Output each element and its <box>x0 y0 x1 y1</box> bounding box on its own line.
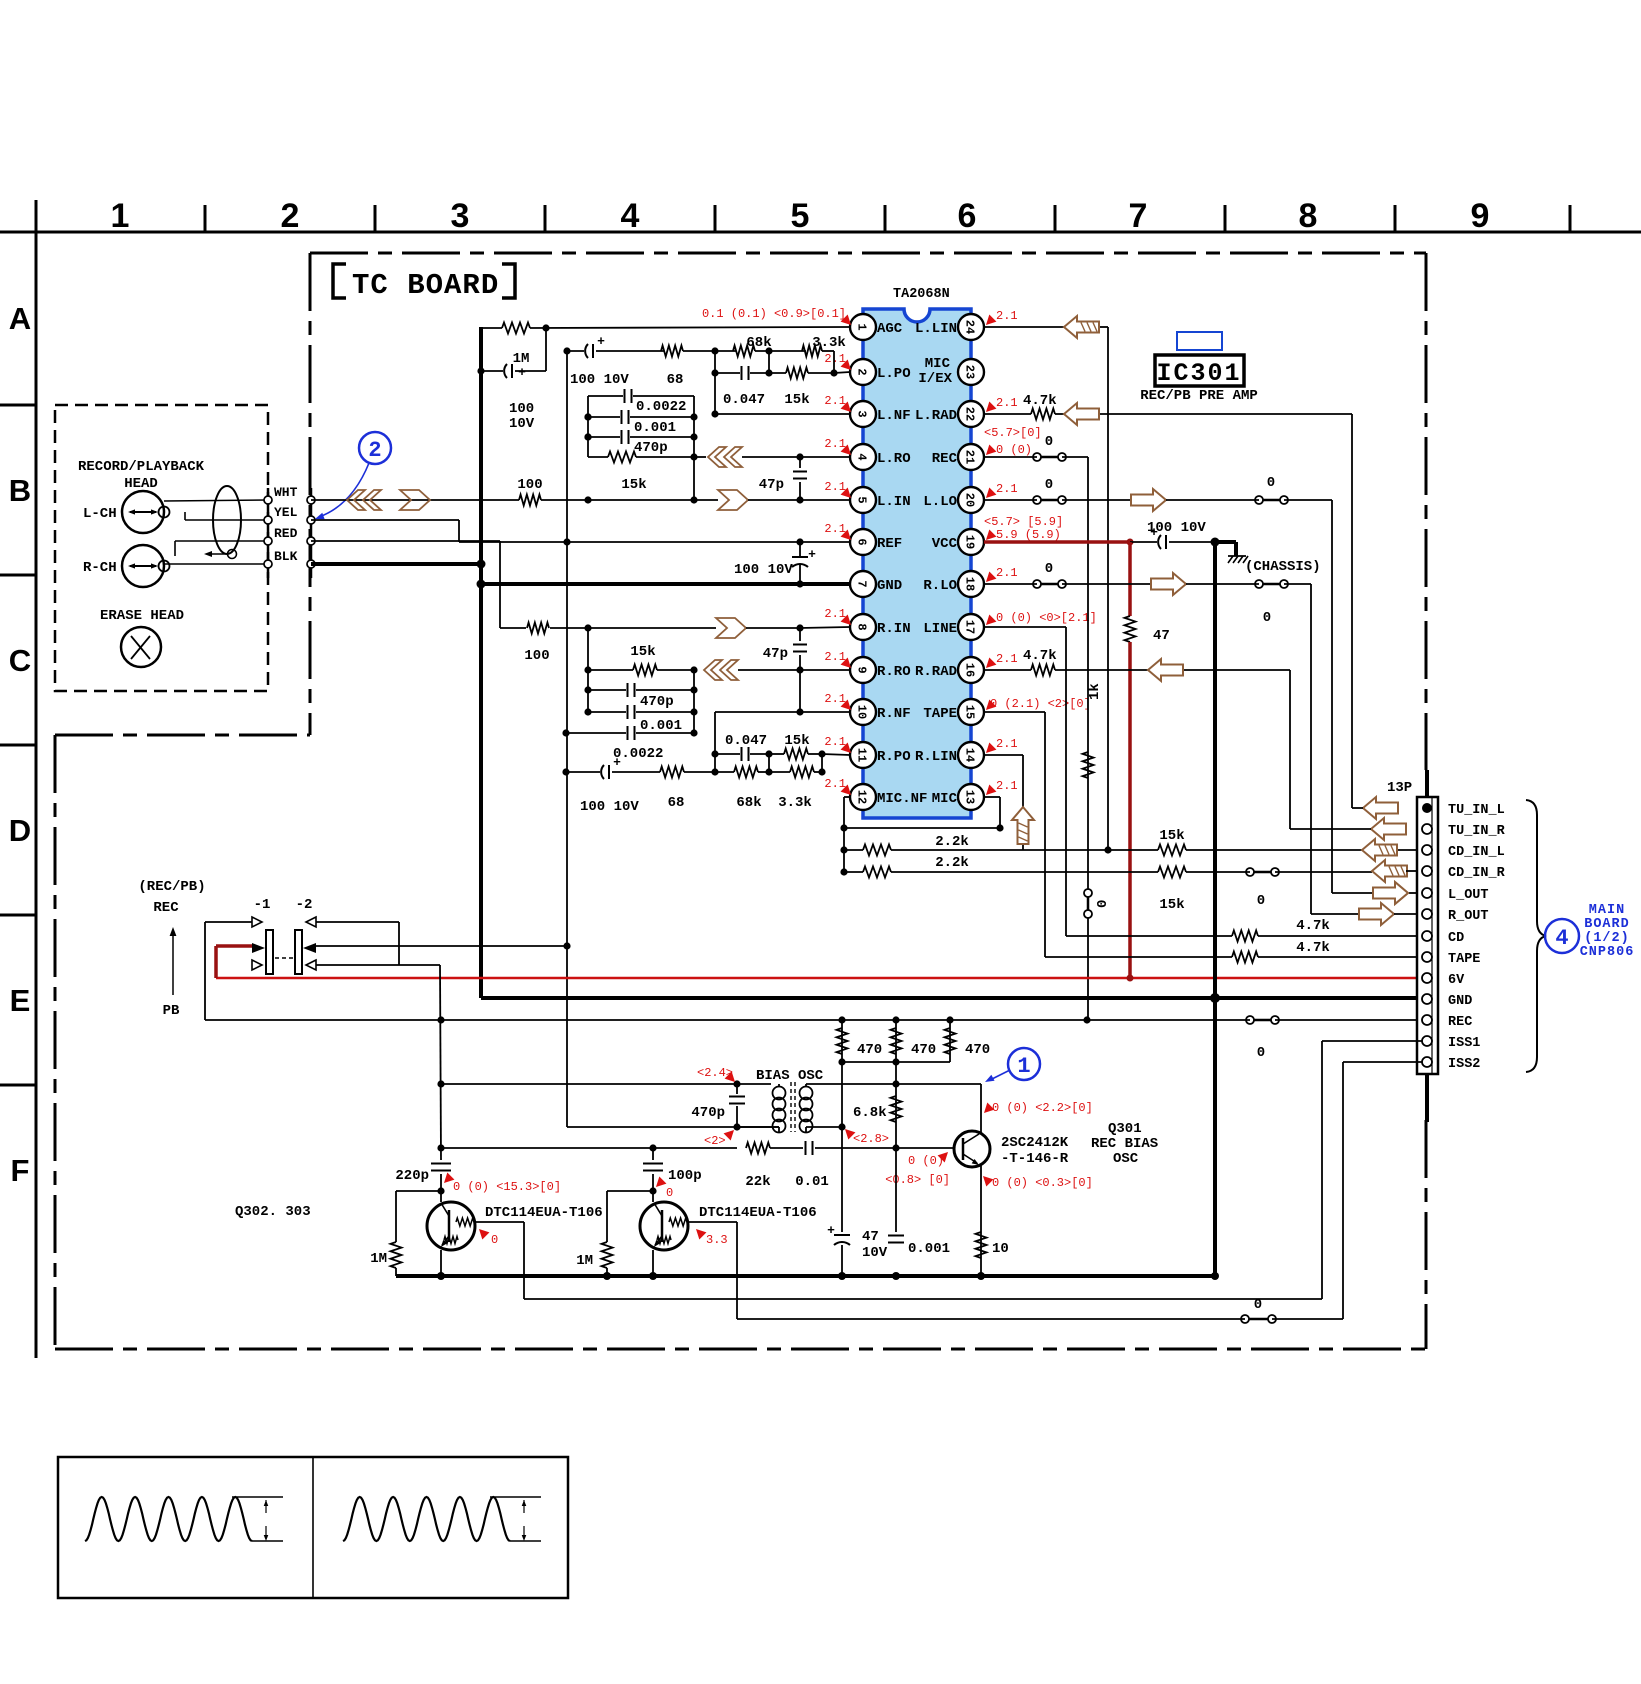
svg-text:2.1: 2.1 <box>824 650 846 664</box>
svg-text:10: 10 <box>855 705 869 719</box>
svg-text:7: 7 <box>1129 197 1148 235</box>
svg-text:100: 100 <box>509 401 534 417</box>
svg-text:23: 23 <box>963 365 977 379</box>
svg-text:5: 5 <box>791 197 810 235</box>
svg-text:R.LO: R.LO <box>923 578 957 594</box>
svg-text:22: 22 <box>963 407 977 421</box>
svg-text:CNP806: CNP806 <box>1580 945 1635 960</box>
svg-text:DTC114EUA-T106: DTC114EUA-T106 <box>485 1205 603 1221</box>
svg-text:2.1: 2.1 <box>996 779 1018 793</box>
svg-text:TAPE: TAPE <box>923 706 957 722</box>
svg-text:1k: 1k <box>1087 683 1103 700</box>
svg-text:6.8k: 6.8k <box>853 1105 887 1121</box>
svg-text:2.1: 2.1 <box>996 482 1018 496</box>
svg-text:1M: 1M <box>513 351 530 367</box>
svg-text:5: 5 <box>855 496 869 503</box>
svg-text:MIC: MIC <box>925 356 951 372</box>
svg-text:C: C <box>9 643 31 678</box>
svg-text:4.7k: 4.7k <box>1296 918 1330 934</box>
svg-text:0.047: 0.047 <box>725 733 767 749</box>
svg-text:0: 0 <box>1263 610 1271 626</box>
svg-text:<2>: <2> <box>704 1134 726 1148</box>
svg-text:R.NF: R.NF <box>877 706 911 722</box>
svg-text:6V: 6V <box>1448 973 1465 988</box>
svg-text:6: 6 <box>958 197 977 235</box>
svg-text:470p: 470p <box>634 440 668 456</box>
svg-text:15k: 15k <box>784 392 809 408</box>
svg-text:100 10V: 100 10V <box>734 562 793 578</box>
svg-text:15k: 15k <box>784 733 809 749</box>
svg-text:+: + <box>827 1223 835 1238</box>
svg-text:R_OUT: R_OUT <box>1448 909 1489 924</box>
svg-text:2.1: 2.1 <box>996 652 1018 666</box>
svg-text:I/EX: I/EX <box>918 371 952 387</box>
svg-text:20: 20 <box>963 493 977 507</box>
svg-text:21: 21 <box>963 450 977 464</box>
svg-text:470p: 470p <box>691 1105 725 1121</box>
svg-text:12: 12 <box>855 790 869 804</box>
svg-text:GND: GND <box>1448 994 1472 1009</box>
svg-text:0: 0 <box>491 1233 498 1247</box>
svg-text:47p: 47p <box>759 477 784 493</box>
svg-text:2.1: 2.1 <box>824 777 846 791</box>
svg-text:-T-146-R: -T-146-R <box>1001 1151 1069 1167</box>
svg-text:0.1 (0.1) <0.9>[0.1]: 0.1 (0.1) <0.9>[0.1] <box>702 307 846 321</box>
svg-text:ERASE HEAD: ERASE HEAD <box>100 608 184 624</box>
svg-text:470: 470 <box>965 1042 990 1058</box>
svg-text:0.047: 0.047 <box>723 392 765 408</box>
svg-text:L.NF: L.NF <box>877 408 911 424</box>
svg-text:470p: 470p <box>640 694 674 710</box>
svg-text:<5.7> [5.9]: <5.7> [5.9] <box>984 515 1063 529</box>
svg-text:LINE: LINE <box>923 621 957 637</box>
svg-text:AGC: AGC <box>877 321 903 337</box>
svg-text:VCC: VCC <box>932 536 958 552</box>
svg-text:0: 0 <box>1257 1045 1265 1061</box>
svg-text:E: E <box>10 983 31 1018</box>
svg-text:68: 68 <box>667 372 684 388</box>
svg-text:18: 18 <box>963 577 977 591</box>
svg-text:7: 7 <box>855 580 869 587</box>
svg-text:2.2k: 2.2k <box>935 855 969 871</box>
svg-text:RECORD/PLAYBACK: RECORD/PLAYBACK <box>78 459 205 475</box>
svg-text:10V: 10V <box>862 1245 888 1261</box>
svg-text:0 (0): 0 (0) <box>908 1154 944 1168</box>
svg-text:22k: 22k <box>745 1174 770 1190</box>
svg-text:YEL: YEL <box>274 505 298 520</box>
svg-text:L.PO: L.PO <box>877 366 911 382</box>
svg-text:BIAS OSC: BIAS OSC <box>756 1068 824 1084</box>
svg-text:<0.8> [0]: <0.8> [0] <box>885 1173 950 1187</box>
svg-text:(CHASSIS): (CHASSIS) <box>1245 559 1321 575</box>
svg-text:0 (0) <15.3>[0]: 0 (0) <15.3>[0] <box>453 1180 561 1194</box>
svg-text:0 (2.1) <2>[0]: 0 (2.1) <2>[0] <box>990 697 1091 711</box>
svg-text:0: 0 <box>1045 434 1053 450</box>
svg-text:2.1: 2.1 <box>824 522 846 536</box>
svg-text:100 10V: 100 10V <box>1147 520 1206 536</box>
svg-text:R.RO: R.RO <box>877 664 911 680</box>
svg-text:R.IN: R.IN <box>877 621 911 637</box>
svg-text:0 (0) <2.2>[0]: 0 (0) <2.2>[0] <box>992 1101 1093 1115</box>
svg-text:GND: GND <box>877 578 902 594</box>
svg-text:Q302. 303: Q302. 303 <box>235 1204 311 1220</box>
svg-text:2.1: 2.1 <box>996 566 1018 580</box>
svg-text:10V: 10V <box>509 416 535 432</box>
svg-text:REC/PB PRE AMP: REC/PB PRE AMP <box>1140 388 1258 404</box>
svg-text:L.IN: L.IN <box>877 494 911 510</box>
svg-text:0.001: 0.001 <box>634 420 676 436</box>
svg-text:F: F <box>11 1153 30 1188</box>
svg-text:24: 24 <box>963 320 977 334</box>
svg-text:5.9 (5.9): 5.9 (5.9) <box>996 528 1061 542</box>
svg-text:L.RAD: L.RAD <box>915 408 957 424</box>
svg-text:L.LO: L.LO <box>923 494 957 510</box>
svg-text:100: 100 <box>524 648 549 664</box>
svg-text:17: 17 <box>963 620 977 634</box>
svg-text:ISS2: ISS2 <box>1448 1057 1480 1072</box>
svg-text:0 (0) <0.3>[0]: 0 (0) <0.3>[0] <box>992 1176 1093 1190</box>
svg-text:R.LIN: R.LIN <box>915 749 957 765</box>
svg-text:CD_IN_R: CD_IN_R <box>1448 866 1506 881</box>
svg-text:100 10V: 100 10V <box>580 799 639 815</box>
svg-text:2.1: 2.1 <box>824 607 846 621</box>
svg-text:L.LIN: L.LIN <box>915 321 957 337</box>
svg-text:0.0022: 0.0022 <box>636 399 686 415</box>
svg-text:(1/2): (1/2) <box>1584 931 1630 946</box>
svg-text:2.1: 2.1 <box>996 737 1018 751</box>
svg-text:3: 3 <box>855 410 869 417</box>
svg-text:1M: 1M <box>370 1251 387 1267</box>
svg-text:2: 2 <box>855 368 869 375</box>
svg-text:14: 14 <box>963 748 977 762</box>
svg-text:68: 68 <box>668 795 685 811</box>
svg-text:2.1: 2.1 <box>996 396 1018 410</box>
svg-text:15k: 15k <box>1159 897 1184 913</box>
svg-text:2: 2 <box>281 197 300 235</box>
svg-text:2.1: 2.1 <box>996 309 1018 323</box>
svg-text:TC BOARD: TC BOARD <box>352 269 499 302</box>
svg-text:OSC: OSC <box>1113 1151 1139 1167</box>
svg-text:0: 0 <box>1257 893 1265 909</box>
svg-text:19: 19 <box>963 535 977 549</box>
svg-text:L-CH: L-CH <box>83 506 117 522</box>
svg-text:8: 8 <box>855 623 869 630</box>
svg-text:68k: 68k <box>736 795 761 811</box>
svg-text:9: 9 <box>1471 197 1490 235</box>
svg-text:15k: 15k <box>1159 828 1184 844</box>
svg-text:DTC114EUA-T106: DTC114EUA-T106 <box>699 1205 817 1221</box>
svg-text:1: 1 <box>1017 1054 1030 1079</box>
svg-text:1: 1 <box>855 323 869 330</box>
svg-text:HEAD: HEAD <box>124 476 158 492</box>
svg-text:CD_IN_L: CD_IN_L <box>1448 845 1505 860</box>
svg-text:68k: 68k <box>746 335 771 351</box>
svg-text:D: D <box>9 813 31 848</box>
svg-text:CD: CD <box>1448 931 1464 946</box>
svg-text:470: 470 <box>911 1042 936 1058</box>
svg-text:MAIN: MAIN <box>1589 903 1625 918</box>
svg-text:3.3k: 3.3k <box>812 335 846 351</box>
svg-text:47p: 47p <box>763 646 788 662</box>
svg-text:R.PO: R.PO <box>877 749 911 765</box>
svg-text:2.1: 2.1 <box>824 692 846 706</box>
svg-text:0.0022: 0.0022 <box>613 746 663 762</box>
svg-text:ISS1: ISS1 <box>1448 1036 1480 1051</box>
svg-text:10: 10 <box>992 1241 1009 1257</box>
svg-text:4: 4 <box>1555 926 1568 951</box>
svg-text:-1: -1 <box>254 897 271 913</box>
svg-text:0: 0 <box>1045 477 1053 493</box>
svg-text:+: + <box>518 365 526 380</box>
svg-text:2.2k: 2.2k <box>935 834 969 850</box>
svg-text:4.7k: 4.7k <box>1023 648 1057 664</box>
svg-text:15: 15 <box>963 705 977 719</box>
svg-text:REF: REF <box>877 536 902 552</box>
svg-text:16: 16 <box>963 663 977 677</box>
svg-text:0: 0 <box>666 1186 673 1200</box>
svg-text:A: A <box>9 301 31 336</box>
svg-text:2.1: 2.1 <box>824 394 846 408</box>
svg-text:2.1: 2.1 <box>824 437 846 451</box>
svg-text:0 (0) <0>[2.1]: 0 (0) <0>[2.1] <box>996 611 1097 625</box>
svg-text:11: 11 <box>855 748 869 762</box>
svg-text:+: + <box>597 334 605 349</box>
svg-text:13: 13 <box>963 790 977 804</box>
svg-text:0: 0 <box>1267 475 1275 491</box>
svg-text:+: + <box>808 547 816 562</box>
svg-text:-2: -2 <box>296 897 313 913</box>
svg-text:REC: REC <box>153 900 179 916</box>
svg-text:B: B <box>9 473 31 508</box>
svg-text:0: 0 <box>1254 1297 1262 1313</box>
svg-text:MIC.NF: MIC.NF <box>877 791 927 807</box>
svg-text:100p: 100p <box>668 1168 702 1184</box>
svg-text:TA2068N: TA2068N <box>893 287 950 302</box>
svg-text:<2.8>: <2.8> <box>853 1132 889 1146</box>
svg-text:0: 0 <box>1095 900 1111 908</box>
svg-text:<5.7>[0]: <5.7>[0] <box>984 426 1042 440</box>
svg-text:4: 4 <box>621 197 640 235</box>
svg-text:47: 47 <box>862 1229 879 1245</box>
svg-text:0.01: 0.01 <box>795 1174 829 1190</box>
svg-text:MIC: MIC <box>932 791 958 807</box>
svg-text:2: 2 <box>368 438 381 463</box>
svg-text:47: 47 <box>1153 628 1170 644</box>
svg-text:13P: 13P <box>1387 780 1412 796</box>
svg-text:15k: 15k <box>630 644 655 660</box>
svg-text:2.1: 2.1 <box>824 352 846 366</box>
svg-text:3.3k: 3.3k <box>778 795 812 811</box>
svg-text:TU_IN_R: TU_IN_R <box>1448 824 1506 839</box>
svg-text:0.001: 0.001 <box>640 718 682 734</box>
svg-text:4.7k: 4.7k <box>1296 940 1330 956</box>
svg-text:BOARD: BOARD <box>1584 917 1630 932</box>
svg-text:220p: 220p <box>395 1168 429 1184</box>
svg-text:0.001: 0.001 <box>908 1241 950 1257</box>
svg-text:BLK: BLK <box>274 549 298 564</box>
svg-text:2.1: 2.1 <box>824 480 846 494</box>
svg-text:15k: 15k <box>621 477 646 493</box>
svg-text:3: 3 <box>451 197 470 235</box>
svg-text:8: 8 <box>1299 197 1318 235</box>
svg-text:0 (0): 0 (0) <box>996 443 1032 457</box>
svg-text:TAPE: TAPE <box>1448 952 1480 967</box>
svg-text:IC301: IC301 <box>1156 359 1241 388</box>
svg-text:470: 470 <box>857 1042 882 1058</box>
svg-text:100: 100 <box>517 477 542 493</box>
svg-text:6: 6 <box>855 538 869 545</box>
svg-text:2SC2412K: 2SC2412K <box>1001 1135 1069 1151</box>
svg-text:Q301: Q301 <box>1108 1121 1142 1137</box>
svg-text:REC: REC <box>1448 1015 1472 1030</box>
svg-text:R.RAD: R.RAD <box>915 664 957 680</box>
svg-text:L.RO: L.RO <box>877 451 911 467</box>
svg-text:100 10V: 100 10V <box>570 372 629 388</box>
svg-text:(REC/PB): (REC/PB) <box>138 879 205 895</box>
svg-text:1: 1 <box>111 197 130 235</box>
svg-text:R-CH: R-CH <box>83 560 117 576</box>
svg-text:REC: REC <box>932 451 958 467</box>
svg-text:WHT: WHT <box>274 485 298 500</box>
svg-text:1M: 1M <box>576 1253 593 1269</box>
svg-text:2.1: 2.1 <box>824 735 846 749</box>
svg-text:0: 0 <box>1045 561 1053 577</box>
svg-text:9: 9 <box>855 666 869 673</box>
svg-text:TU_IN_L: TU_IN_L <box>1448 803 1505 818</box>
svg-text:4: 4 <box>855 453 869 460</box>
svg-text:3.3: 3.3 <box>706 1233 728 1247</box>
svg-text:RED: RED <box>274 526 298 541</box>
svg-text:REC BIAS: REC BIAS <box>1091 1136 1158 1152</box>
svg-text:PB: PB <box>163 1003 180 1019</box>
svg-text:L_OUT: L_OUT <box>1448 888 1489 903</box>
